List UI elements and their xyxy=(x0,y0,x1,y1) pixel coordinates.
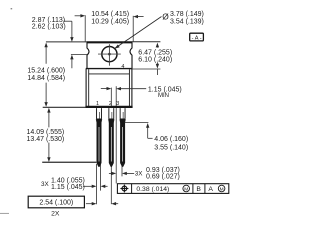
dim 2.54 box xyxy=(28,196,84,208)
dim 1.40/1.15 right arrow xyxy=(101,185,108,188)
extension line lead1 left edge xyxy=(96,164,98,204)
dim 0.93/0.69 right arrow xyxy=(122,172,134,175)
dim 14.09/13.47 text xyxy=(27,129,65,143)
extension line lead1 right edge xyxy=(100,164,102,191)
extension line D between leads 2 and 3 xyxy=(115,86,117,183)
pin label 1 xyxy=(96,101,99,107)
body top edge xyxy=(86,68,132,70)
dim 4.06/3.55 ext line xyxy=(125,121,149,123)
body right edge xyxy=(131,69,133,107)
dim 6.47/6.10 ext bottom xyxy=(131,68,161,70)
dim 2.87/2.62 leader elbow xyxy=(63,21,73,42)
svg-text:A: A xyxy=(208,186,213,193)
svg-text:4: 4 xyxy=(121,64,124,70)
hole dia text xyxy=(170,11,204,26)
speck artifact top left xyxy=(11,8,13,9)
dim 14.09/13.47 upper segment xyxy=(47,108,50,128)
body inner left line xyxy=(88,69,90,106)
body inner right line xyxy=(128,69,130,106)
svg-text:3X: 3X xyxy=(135,171,144,178)
hole centerline vertical xyxy=(108,44,110,65)
dim 15.24/14.84 upper segment xyxy=(44,43,47,64)
dim 10.54/10.29 ext right xyxy=(132,16,134,42)
dim 15.24/14.84 text xyxy=(27,68,65,82)
dim 2.87/2.62 text xyxy=(32,17,66,31)
svg-text:2: 2 xyxy=(109,101,112,107)
svg-text:3X: 3X xyxy=(41,181,50,188)
tab right edge with notch xyxy=(130,42,132,68)
body bottom edge xyxy=(85,106,132,108)
extension line lead3 center xyxy=(121,164,123,176)
label 2X xyxy=(51,210,60,217)
svg-text:3.54 (.139): 3.54 (.139) xyxy=(170,18,204,25)
dim 2.54 left arrow xyxy=(86,202,97,205)
svg-text:2X: 2X xyxy=(51,210,60,217)
tab top edge xyxy=(87,41,133,43)
dim 2.54 right arrow xyxy=(111,202,118,205)
svg-text:M: M xyxy=(220,187,224,193)
body inner top line xyxy=(89,73,130,75)
dim 0.93/0.69 text xyxy=(135,167,180,181)
extension line seating plane xyxy=(43,106,86,108)
dim 10.54/10.29 right arrow xyxy=(133,15,143,18)
svg-text:14.84 (.584): 14.84 (.584) xyxy=(27,75,65,82)
hole dia symbol xyxy=(162,12,169,22)
hole leader line xyxy=(114,17,161,49)
svg-text:10.54 (.415): 10.54 (.415) xyxy=(91,11,129,18)
svg-text:3.78 (.149): 3.78 (.149) xyxy=(170,11,204,18)
svg-text:B: B xyxy=(196,186,201,193)
svg-text:10.29 (.405): 10.29 (.405) xyxy=(91,19,129,26)
dim 6.47/6.10 bottom arrow xyxy=(156,62,159,75)
svg-text:2.54 (.100): 2.54 (.100) xyxy=(39,200,73,207)
svg-text:MIN: MIN xyxy=(158,93,169,99)
svg-text:0.69 (.027): 0.69 (.027) xyxy=(146,174,180,181)
extension line C lead2 center xyxy=(110,88,112,205)
mounting hole xyxy=(102,47,117,62)
svg-text:M: M xyxy=(184,187,188,193)
dim 14.09/13.47 lower segment xyxy=(47,143,50,162)
svg-text:6.10 (.240): 6.10 (.240) xyxy=(138,56,172,63)
lead pin 1 xyxy=(96,108,102,167)
dim 1.15 MIN text xyxy=(148,86,182,99)
svg-text:- A -: - A - xyxy=(192,35,202,41)
dim 10.54/10.29 ext left xyxy=(84,15,86,41)
dim 6.47/6.10 ext top xyxy=(132,41,160,43)
tab left edge with notch xyxy=(87,42,89,68)
extension line lead tips xyxy=(42,161,96,163)
dim 4.06/3.55 text xyxy=(154,136,188,152)
extension line tab top left xyxy=(46,41,87,43)
svg-text:6.47 (.255): 6.47 (.255) xyxy=(138,49,172,56)
svg-text:13.47 (.530): 13.47 (.530) xyxy=(27,136,65,143)
hole centerline horizontal xyxy=(98,53,121,55)
svg-text:Ø: Ø xyxy=(162,12,169,22)
dim 10.54/10.29 text xyxy=(91,11,129,26)
svg-text:3.55 (.140): 3.55 (.140) xyxy=(154,144,188,151)
svg-text:1: 1 xyxy=(96,101,99,107)
lead pin 2 xyxy=(108,108,114,167)
datum -A- box xyxy=(190,33,204,41)
dim 4.06/3.55 arrow+elbow xyxy=(146,123,153,138)
border fragment bottom left xyxy=(0,212,9,214)
svg-text:0.38 (.014): 0.38 (.014) xyxy=(136,186,169,193)
dim 2.87/2.62 lower arrow xyxy=(70,55,73,69)
extension line notch bottom xyxy=(71,53,87,55)
lead pin 3 xyxy=(120,108,126,167)
dim 6.47/6.10 text xyxy=(138,49,172,63)
dim 1.15 MIN left arrow xyxy=(101,87,112,90)
dim 1.15 MIN right arrow xyxy=(116,87,146,90)
body left edge xyxy=(85,69,87,107)
pin label 4 xyxy=(121,64,124,70)
dim 0.93/0.69 left arrow xyxy=(109,172,116,175)
dim 1.40/1.15 left arrow xyxy=(83,185,97,188)
dim 6.47/6.10 top arrow xyxy=(156,43,159,48)
dim 1.40/1.15 text xyxy=(41,178,85,192)
svg-text:2.62 (.103): 2.62 (.103) xyxy=(32,23,66,30)
pin label 3 xyxy=(116,101,119,107)
svg-text:4.06 (.160): 4.06 (.160) xyxy=(154,136,188,143)
feature control frame true-position 0.38 xyxy=(117,184,228,194)
dim 10.54/10.29 left arrow xyxy=(75,14,86,17)
dim 15.24/14.84 lower segment xyxy=(44,83,47,107)
pin label 2 xyxy=(109,101,112,107)
svg-text:3: 3 xyxy=(116,101,119,107)
svg-text:1.15 (.045): 1.15 (.045) xyxy=(51,184,85,191)
svg-text:15.24 (.600): 15.24 (.600) xyxy=(27,68,65,75)
